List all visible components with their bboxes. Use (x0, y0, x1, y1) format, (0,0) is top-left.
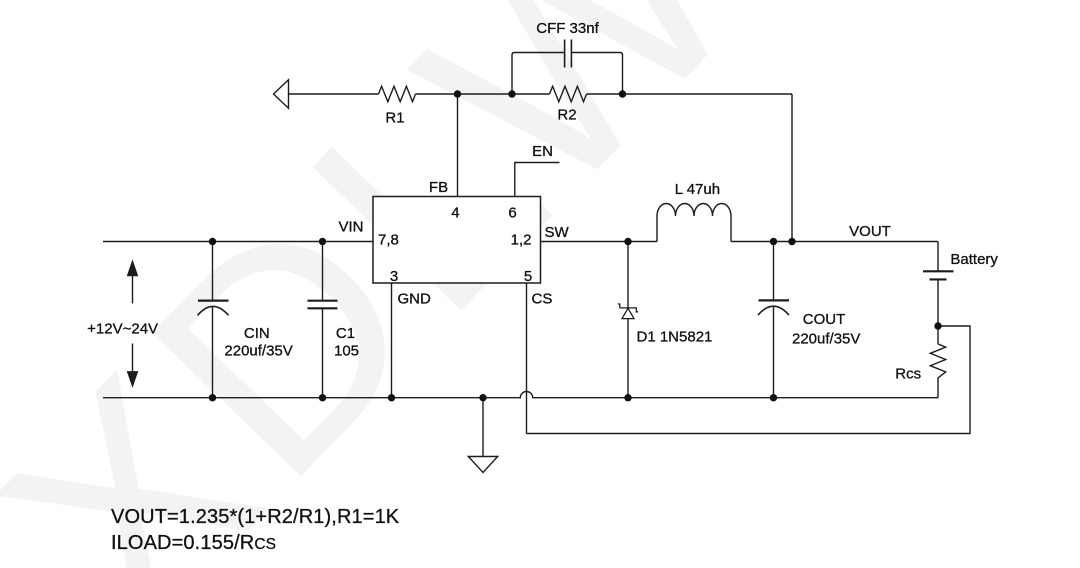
resistor Rcs (937, 326, 939, 344)
svg-text:3: 3 (390, 268, 398, 285)
node FB junction (454, 90, 461, 97)
svg-text:1,2: 1,2 (511, 231, 532, 248)
svg-text:XDLWK: XDLWK (0, 0, 955, 568)
svg-text:105: 105 (334, 342, 359, 359)
svg-text:VIN: VIN (338, 219, 363, 236)
wire: bottom rail with hop (103, 392, 938, 398)
node CIN bottom (209, 394, 216, 401)
ground (482, 398, 484, 457)
svg-text:VOUT=1.235*(1+R2/R1),R1=1K: VOUT=1.235*(1+R2/R1),R1=1K (111, 506, 400, 528)
svg-text:6: 6 (508, 205, 516, 222)
svg-text:ILOAD=0.155/RCS: ILOAD=0.155/RCS (111, 532, 276, 554)
svg-text:COUT: COUT (803, 311, 846, 328)
capacitor CIN (212, 242, 214, 398)
svg-text:220uf/35V: 220uf/35V (224, 342, 292, 359)
wire: FB pin wire (457, 94, 459, 197)
svg-text:SW: SW (545, 224, 570, 241)
diode D1 (627, 242, 629, 398)
inductor L (657, 203, 731, 241)
capacitor C1 (322, 242, 324, 398)
op-amp U1 : IC body (373, 197, 541, 284)
wire: CFF loop (512, 53, 623, 95)
svg-text:R1: R1 (385, 110, 404, 127)
wire: GND pin wire (391, 283, 393, 398)
svg-text:EN: EN (532, 143, 553, 160)
input arrow terminal (274, 80, 289, 108)
node D1 bottom (624, 394, 631, 401)
svg-text:Battery: Battery (950, 251, 998, 268)
svg-text:D1 1N5821: D1 1N5821 (637, 329, 713, 346)
wire: top feedback rail (289, 94, 793, 242)
svg-text:7,8: 7,8 (378, 231, 399, 248)
svg-text:CS: CS (532, 291, 553, 308)
node COUT top (770, 238, 777, 245)
svg-text:L 47uh: L 47uh (675, 181, 720, 198)
svg-text:+12V~24V: +12V~24V (87, 321, 158, 338)
svg-text:CFF 33nf: CFF 33nf (536, 20, 599, 37)
node COUT bottom (770, 394, 777, 401)
svg-text:VOUT: VOUT (849, 223, 891, 240)
svg-text:220uf/35V: 220uf/35V (792, 331, 860, 348)
node VOUT junction (788, 238, 795, 245)
capacitor CFF plates (565, 40, 572, 68)
input voltage double arrow (132, 273, 134, 373)
svg-text:Rcs: Rcs (895, 366, 921, 383)
capacitor COUT (773, 242, 775, 398)
node D1 top (624, 238, 631, 245)
svg-text:C1: C1 (336, 325, 355, 342)
resistor R1 (379, 86, 416, 101)
formula text (111, 506, 400, 554)
node CIN top (209, 238, 216, 245)
resistor R2 (550, 86, 587, 101)
battery (923, 270, 954, 272)
svg-text:FB: FB (429, 179, 448, 196)
node ground stub (479, 394, 486, 401)
svg-text:5: 5 (524, 268, 532, 285)
wire: VIN rail (103, 241, 373, 243)
wire: CS return loop (527, 326, 971, 434)
node R2 left (508, 90, 515, 97)
svg-text:4: 4 (451, 205, 459, 222)
node C1 bottom (319, 394, 326, 401)
wire: battery branch (937, 242, 939, 327)
wire: CS pin wire (526, 283, 528, 434)
svg-text:GND: GND (398, 291, 432, 308)
svg-text:CIN: CIN (244, 325, 270, 342)
wire: SW rail (541, 241, 939, 243)
wire: EN pin wire (515, 163, 560, 197)
node Rcs top (934, 322, 941, 329)
node R2 right (619, 90, 626, 97)
node GND pin bottom (388, 394, 395, 401)
node C1 top (319, 238, 326, 245)
svg-text:R2: R2 (557, 107, 576, 124)
